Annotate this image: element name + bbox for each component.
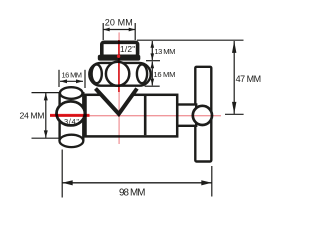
bold red horizontal centerline (50, 114, 90, 117)
dimension 24 MM line with arrows (44, 93, 48, 138)
svg-text:3/4": 3/4" (64, 117, 79, 126)
svg-text:13 MM: 13 MM (154, 47, 175, 56)
hex body left ellipse (92, 64, 102, 83)
svg-text:16 MM: 16 MM (153, 70, 175, 79)
hex body stadium (89, 63, 150, 86)
left port top oval (60, 87, 83, 99)
left port side walls (60, 92, 84, 141)
bonnet divider line (144, 96, 147, 135)
svg-text:20 MM: 20 MM (105, 17, 133, 27)
dimension 47 MM line with arrows (225, 41, 244, 114)
dimension 24 MM extension lines (32, 93, 61, 139)
dimension 20 MM extension lines (103, 23, 135, 40)
left port middle oval (56, 101, 84, 125)
thin pink vertical centerline (118, 32, 120, 144)
svg-text:98 MM: 98 MM (119, 188, 146, 199)
hex body right ellipse (137, 64, 147, 83)
cap flange (black bar) (98, 55, 141, 61)
svg-text:47 MM: 47 MM (236, 74, 262, 84)
extension line from cap top to 47 MM dimension (137, 39, 244, 41)
svg-text:1/2": 1/2" (120, 44, 135, 54)
dimension 13 MM line with arrows (146, 41, 160, 61)
hex body center ellipse (106, 62, 129, 86)
red dot at cap (117, 55, 120, 58)
dimension 16 MM (port) extension lines (59, 70, 85, 88)
V seat interior (white) (96, 88, 138, 112)
thin pink horizontal centerline (50, 115, 221, 117)
dimension 20 MM line with arrows (103, 28, 135, 32)
left port bottom oval (60, 135, 84, 147)
valve body box (86, 95, 178, 137)
stem knob circle (193, 106, 212, 125)
dimension 16 MM (port) line with arrows (60, 79, 83, 83)
V seat chamfer (96, 89, 138, 114)
bold red vertical centerline (118, 40, 120, 92)
valve stem rectangle (177, 105, 196, 126)
svg-text:16 MM: 16 MM (62, 70, 83, 79)
top cap (1/2 inch port) (102, 42, 138, 56)
dimension 16 MM (right) line with arrows (145, 61, 160, 86)
svg-text:24 MM: 24 MM (20, 111, 45, 121)
dimension 98 MM line with arrows (62, 180, 212, 185)
dimension 98 MM extension lines (62, 150, 212, 198)
handle (tall bar) (195, 67, 211, 162)
